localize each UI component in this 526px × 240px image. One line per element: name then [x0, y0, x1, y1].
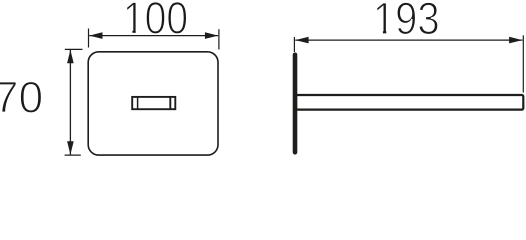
svg-text:100: 100: [123, 0, 188, 43]
svg-text:70: 70: [0, 73, 43, 122]
svg-text:193: 193: [373, 0, 440, 44]
